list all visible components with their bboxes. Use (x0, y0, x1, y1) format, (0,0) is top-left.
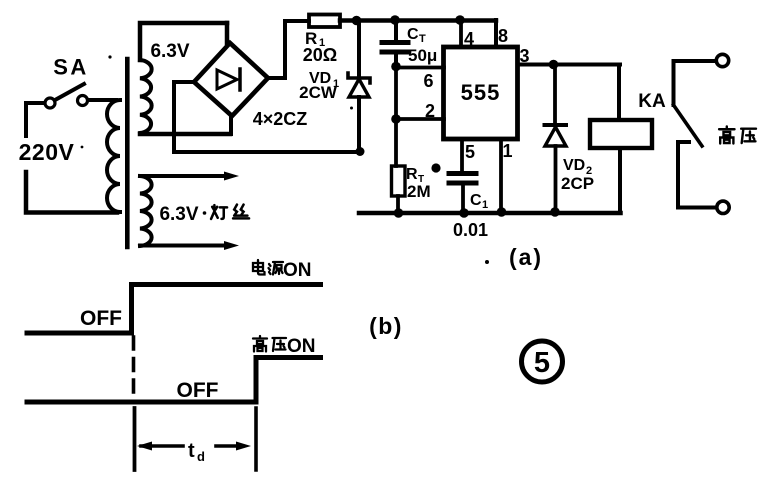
td left arrow (137, 442, 183, 451)
pin 8 lead (494, 20, 498, 47)
scan speckles (81, 55, 489, 264)
wire down to RT (394, 119, 398, 166)
svg-text:2CP: 2CP (561, 174, 594, 193)
svg-text:4×2CZ: 4×2CZ (253, 109, 308, 129)
glyph 高 (253, 336, 267, 352)
node VD2 bottom (550, 207, 560, 217)
svg-text:C: C (470, 192, 482, 209)
svg-text:T: T (419, 33, 426, 45)
svg-text:KA: KA (638, 91, 666, 112)
op IC 555 U1 (444, 47, 518, 139)
svg-text:3: 3 (519, 46, 529, 66)
node on top bus at CT (390, 15, 400, 25)
svg-text:t: t (188, 440, 195, 462)
pin 3 lead (518, 63, 621, 67)
glyph 压 (741, 129, 756, 143)
ground wire to VD1 node (174, 150, 361, 154)
transformer filament winding 6.3V (140, 172, 239, 251)
label 6.3V 灯丝 (159, 204, 198, 225)
glyph 源 (269, 262, 284, 275)
glyph 丝 (233, 205, 249, 219)
pin 1 lead (499, 139, 503, 213)
label VD2 (563, 157, 592, 177)
transformer primary winding (107, 100, 120, 212)
waveform 1 (power) (27, 285, 321, 334)
wire: bridge right lead to R1 (268, 21, 309, 78)
svg-text:6.3V: 6.3V (150, 41, 189, 62)
svg-text:50μ: 50μ (408, 46, 437, 65)
contact fixed end (678, 142, 716, 208)
svg-text:555: 555 (461, 80, 501, 105)
svg-text:6: 6 (423, 71, 433, 91)
svg-text:8: 8 (498, 26, 508, 46)
transformer core (125, 59, 130, 247)
wire pin2 (396, 117, 444, 121)
node CT bottom (391, 62, 401, 72)
figure number circled 5 (522, 341, 563, 382)
capacitor C1 (449, 174, 476, 214)
node RT bottom (394, 208, 404, 218)
dashed line (132, 337, 136, 398)
wire top terminal (674, 61, 717, 105)
wire: top bus from R1 to pin8 (340, 18, 496, 23)
resistor RT (392, 166, 406, 196)
svg-text:20Ω: 20Ω (303, 45, 337, 65)
glyph 高 (719, 127, 734, 144)
td left tick (133, 408, 137, 470)
svg-text:(b): (b) (369, 313, 403, 339)
bridge inner diode (217, 69, 240, 90)
bridge rectifier 4x2CZ diamond (194, 43, 268, 116)
svg-text:OFF: OFF (177, 379, 219, 402)
glyph 灯 (211, 205, 227, 219)
wire to pin6 (396, 66, 444, 70)
node: ground/VD1 junction (356, 147, 365, 156)
node pin1 bottom (497, 207, 507, 217)
svg-text:1: 1 (482, 199, 488, 211)
output contact top terminal (716, 54, 728, 66)
svg-text:0.01: 0.01 (453, 220, 488, 240)
label VD1 (309, 70, 339, 90)
label 电源ON (253, 260, 312, 281)
label td (188, 440, 205, 464)
contact blade (674, 105, 703, 146)
label RT with bullet (406, 163, 441, 185)
svg-text:220V: 220V (19, 139, 75, 165)
node on top bus at VD1 (352, 16, 362, 26)
wire: relay to bus (618, 148, 622, 213)
svg-text:OFF: OFF (80, 307, 122, 330)
wire: bridge top lead (225, 23, 230, 43)
svg-text:2CW: 2CW (299, 83, 338, 102)
zener VD1 (348, 21, 370, 153)
svg-text:C: C (407, 26, 419, 43)
glyph 电 (253, 260, 265, 275)
svg-text:ON: ON (287, 336, 316, 357)
svg-text:5: 5 (465, 142, 475, 162)
wire: 220V left loop (26, 100, 117, 213)
node pin2 junction (391, 114, 401, 124)
svg-text:(a): (a) (509, 244, 543, 270)
svg-text:d: d (197, 449, 205, 464)
relay coil KA (590, 120, 652, 148)
wire: bridge bottom lead (229, 116, 233, 134)
waveform 2 (high voltage) (27, 358, 321, 403)
svg-text:2M: 2M (407, 182, 431, 201)
capacitor CT (382, 20, 408, 67)
pin 5 lead (460, 139, 464, 171)
td right arrow (216, 442, 251, 451)
label C1 (470, 192, 488, 211)
svg-text:R: R (406, 166, 418, 183)
label 高压 (output) (719, 127, 756, 144)
output contact bottom terminal (717, 201, 729, 213)
wire: pin3 to relay (617, 65, 621, 121)
svg-text:SA: SA (53, 55, 89, 80)
svg-text:4: 4 (464, 29, 474, 49)
wire: bottom bus (359, 211, 621, 216)
svg-text:1: 1 (502, 141, 512, 161)
transformer secondary 6.3V winding (140, 23, 230, 134)
diode VD2 (545, 65, 567, 214)
node pin3/VD2 top (549, 60, 559, 70)
svg-text:VD: VD (563, 157, 585, 174)
svg-text:5: 5 (534, 347, 550, 379)
td right tick (254, 408, 258, 470)
label 高压ON (253, 336, 316, 357)
svg-text:2: 2 (425, 101, 435, 121)
wire: bridge left lead to ground bus (174, 82, 194, 152)
wire RT to bus (396, 196, 400, 213)
switch SA (45, 55, 89, 109)
resistor R1 (309, 15, 340, 28)
node on top bus at pin4 (455, 15, 465, 25)
glyph 压 (273, 338, 287, 351)
label R1 (305, 29, 325, 49)
svg-text:6.3V: 6.3V (159, 204, 198, 225)
node C1 bottom (459, 208, 469, 218)
pin 4 lead (459, 20, 463, 47)
label CT (407, 26, 426, 45)
svg-text:ON: ON (283, 260, 312, 281)
wire down to pin2 (394, 67, 398, 120)
